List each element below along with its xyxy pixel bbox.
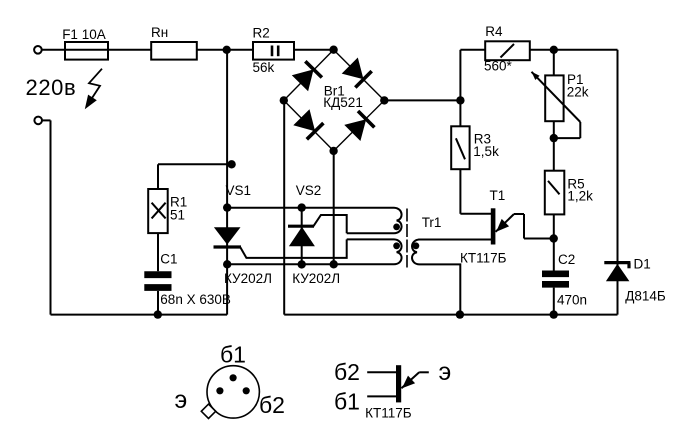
- svg-text:VS2: VS2: [296, 183, 322, 198]
- svg-text:Tr1: Tr1: [422, 215, 442, 230]
- svg-text:э: э: [439, 358, 452, 386]
- svg-text:1,2k: 1,2k: [567, 189, 593, 204]
- svg-text:51: 51: [170, 208, 185, 223]
- svg-text:КУ202Л: КУ202Л: [224, 271, 272, 286]
- svg-text:э: э: [175, 386, 188, 414]
- svg-text:220в: 220в: [26, 75, 77, 100]
- svg-text:б2: б2: [259, 392, 285, 418]
- svg-text:560*: 560*: [484, 59, 513, 74]
- svg-text:C1: C1: [160, 251, 177, 266]
- svg-text:VS1: VS1: [226, 183, 252, 198]
- svg-text:D1: D1: [634, 257, 651, 272]
- svg-text:Rн: Rн: [151, 25, 168, 40]
- svg-text:б2: б2: [334, 359, 360, 385]
- svg-text:22k: 22k: [567, 84, 589, 99]
- svg-text:1,5k: 1,5k: [473, 144, 499, 159]
- svg-text:R2: R2: [253, 26, 270, 41]
- svg-text:C2: C2: [558, 252, 575, 267]
- svg-text:R4: R4: [485, 24, 503, 39]
- svg-text:КУ202Л: КУ202Л: [292, 271, 340, 286]
- svg-text:T1: T1: [490, 188, 506, 203]
- svg-text:б1: б1: [334, 389, 360, 415]
- svg-text:F1 10A: F1 10A: [62, 27, 106, 42]
- svg-text:б1: б1: [220, 342, 246, 368]
- svg-text:КТ117Б: КТ117Б: [365, 406, 412, 421]
- svg-text:470n: 470n: [557, 292, 587, 307]
- svg-text:68n X 630В: 68n X 630В: [160, 292, 231, 307]
- svg-text:Д814Б: Д814Б: [625, 289, 666, 304]
- svg-text:КД521: КД521: [323, 95, 363, 110]
- svg-text:КТ117Б: КТ117Б: [460, 250, 507, 265]
- svg-text:56k: 56k: [253, 60, 275, 75]
